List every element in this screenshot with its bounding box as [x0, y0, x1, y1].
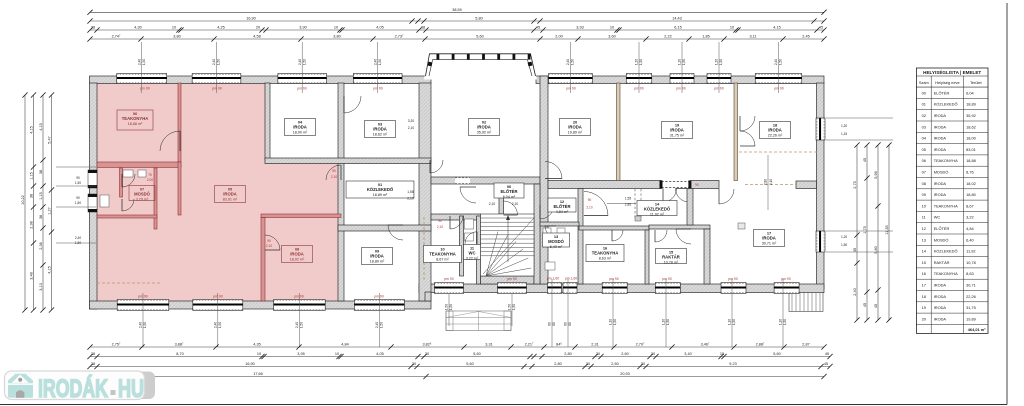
svg-text:TEAKONYHA: TEAKONYHA — [122, 116, 149, 121]
svg-text:2,88⁷: 2,88⁷ — [756, 343, 765, 347]
svg-text:pm 90: pm 90 — [728, 277, 738, 281]
svg-text:ELŐTÉR: ELŐTÉR — [934, 90, 950, 95]
svg-text:22,26: 22,26 — [966, 294, 976, 299]
svg-text:90: 90 — [76, 196, 80, 200]
svg-text:35,92: 35,92 — [966, 113, 976, 118]
svg-text:3,82⁶: 3,82⁶ — [423, 343, 432, 347]
svg-text:30,71 m²: 30,71 m² — [762, 241, 777, 245]
svg-text:3,79 m²: 3,79 m² — [136, 197, 149, 201]
svg-text:IRODA: IRODA — [934, 316, 947, 321]
svg-text:1,55: 1,55 — [625, 197, 632, 201]
svg-text:WC: WC — [469, 251, 476, 256]
svg-text:1,15: 1,15 — [841, 132, 847, 136]
svg-text:8,63: 8,63 — [966, 271, 974, 276]
svg-text:31,75 m²: 31,75 m² — [670, 133, 685, 137]
svg-text:2,21⁷: 2,21⁷ — [525, 343, 534, 347]
svg-text:20: 20 — [256, 26, 260, 30]
svg-text:TEAKONYHA: TEAKONYHA — [934, 158, 958, 163]
svg-text:2,40: 2,40 — [139, 322, 143, 328]
svg-text:1,20: 1,20 — [715, 59, 719, 65]
svg-text:90: 90 — [76, 176, 80, 180]
svg-text:KÖZLEKEDŐ: KÖZLEKEDŐ — [934, 249, 958, 254]
svg-text:38: 38 — [91, 362, 95, 366]
svg-text:13: 13 — [922, 237, 926, 242]
svg-text:12: 12 — [922, 226, 926, 231]
svg-text:15: 15 — [922, 260, 926, 265]
svg-text:30: 30 — [596, 352, 600, 356]
svg-text:pm 90: pm 90 — [444, 277, 454, 281]
svg-text:TEAKONYHA: TEAKONYHA — [934, 203, 958, 208]
svg-text:30: 30 — [586, 362, 590, 366]
svg-text:1,20: 1,20 — [841, 124, 847, 128]
svg-text:WC: WC — [934, 215, 941, 220]
svg-text:IRODA: IRODA — [762, 236, 776, 241]
svg-text:pm 90: pm 90 — [676, 87, 686, 91]
svg-text:2,10: 2,10 — [266, 244, 272, 248]
svg-text:2,10: 2,10 — [437, 225, 443, 229]
svg-text:3,80: 3,80 — [333, 35, 340, 39]
svg-text:2,80: 2,80 — [554, 362, 561, 366]
svg-text:1,50: 1,50 — [302, 59, 306, 65]
svg-text:2,45: 2,45 — [802, 35, 809, 39]
svg-text:pm 90: pm 90 — [373, 87, 383, 91]
svg-text:1,50: 1,50 — [719, 59, 723, 65]
svg-text:4,05: 4,05 — [376, 352, 383, 356]
svg-text:30: 30 — [425, 352, 429, 356]
svg-text:1,50: 1,50 — [571, 59, 575, 65]
svg-text:4,15: 4,15 — [773, 26, 780, 30]
svg-text:2,40: 2,40 — [375, 322, 379, 328]
svg-text:1,50: 1,50 — [143, 322, 147, 328]
svg-text:16,90: 16,90 — [245, 362, 255, 366]
svg-text:35,92 m²: 35,92 m² — [477, 130, 492, 134]
svg-text:2,10: 2,10 — [489, 202, 496, 206]
svg-text:38: 38 — [421, 26, 425, 30]
svg-text:11,92: 11,92 — [966, 249, 975, 254]
svg-text:2,40: 2,40 — [853, 288, 857, 295]
svg-text:5,80: 5,80 — [874, 246, 878, 253]
svg-text:1,50: 1,50 — [378, 59, 382, 65]
svg-text:1,15: 1,15 — [39, 192, 43, 199]
svg-text:TEAKONYHA: TEAKONYHA — [592, 251, 619, 256]
svg-text:3,40: 3,40 — [684, 352, 691, 356]
svg-text:90: 90 — [588, 198, 592, 202]
svg-text:2,40: 2,40 — [298, 59, 302, 65]
svg-text:Helyiség neve: Helyiség neve — [935, 80, 959, 85]
svg-text:2,80: 2,80 — [764, 179, 768, 185]
svg-text:1,50: 1,50 — [732, 319, 736, 325]
svg-text:3,88⁷: 3,88⁷ — [175, 343, 184, 347]
svg-text:2,60: 2,60 — [621, 352, 628, 356]
svg-text:2,40: 2,40 — [213, 322, 217, 328]
svg-text:18,02 m²: 18,02 m² — [290, 257, 305, 261]
svg-text:5,60: 5,60 — [773, 352, 780, 356]
svg-text:30: 30 — [641, 362, 645, 366]
svg-text:45: 45 — [863, 303, 867, 307]
svg-text:10,78 m²: 10,78 m² — [664, 260, 679, 264]
svg-text:45: 45 — [819, 26, 823, 30]
svg-text:IRODA: IRODA — [670, 128, 684, 133]
svg-text:5,60: 5,60 — [466, 362, 473, 366]
svg-text:02: 02 — [922, 113, 926, 118]
svg-text:3,22: 3,22 — [966, 215, 974, 220]
svg-text:01: 01 — [922, 102, 926, 107]
svg-text:2,10: 2,10 — [586, 206, 592, 210]
svg-text:MOSDÓ: MOSDÓ — [548, 239, 565, 244]
svg-text:Szám: Szám — [919, 80, 929, 85]
svg-text:5,80: 5,80 — [475, 17, 482, 21]
svg-text:3,93: 3,93 — [576, 26, 583, 30]
svg-text:HELYISÉGLISTA | EMELET: HELYISÉGLISTA | EMELET — [923, 68, 981, 75]
svg-text:ELŐTÉR: ELŐTÉR — [554, 204, 571, 209]
svg-text:10: 10 — [610, 26, 614, 30]
svg-text:90: 90 — [332, 169, 336, 173]
svg-text:10,22: 10,22 — [21, 195, 25, 205]
svg-text:2,40: 2,40 — [75, 236, 81, 240]
svg-text:18,00 m²: 18,00 m² — [293, 130, 308, 134]
svg-text:8,76: 8,76 — [966, 169, 974, 174]
svg-text:18,00: 18,00 — [966, 136, 977, 141]
svg-text:8,67 m²: 8,67 m² — [436, 257, 449, 261]
svg-text:1,50: 1,50 — [783, 319, 787, 325]
svg-text:18,80: 18,80 — [966, 192, 977, 197]
svg-text:3,60: 3,60 — [608, 35, 615, 39]
svg-text:60: 60 — [548, 322, 552, 326]
svg-text:3,46⁷: 3,46⁷ — [701, 343, 710, 347]
svg-text:03: 03 — [922, 124, 926, 129]
svg-text:8,67: 8,67 — [966, 203, 974, 208]
svg-text:2,10: 2,10 — [769, 179, 773, 185]
svg-text:1,50: 1,50 — [841, 243, 847, 247]
svg-text:5,47: 5,47 — [47, 136, 51, 143]
svg-text:6,40 m²: 6,40 m² — [550, 245, 563, 249]
svg-text:HU: HU — [118, 375, 144, 403]
svg-text:KÖZLEKEDŐ: KÖZLEKEDŐ — [644, 207, 671, 212]
svg-text:4,30: 4,30 — [134, 26, 141, 30]
svg-text:19: 19 — [922, 305, 926, 310]
svg-text:pm 90: pm 90 — [781, 277, 791, 281]
svg-text:1,50: 1,50 — [666, 319, 670, 325]
svg-text:3,22 m²: 3,22 m² — [466, 256, 479, 260]
svg-text:45: 45 — [824, 362, 828, 366]
svg-text:18,89 m²: 18,89 m² — [373, 193, 388, 197]
svg-text:60: 60 — [552, 322, 556, 326]
svg-text:22,26 m²: 22,26 m² — [768, 133, 783, 137]
svg-text:1,20: 1,20 — [635, 59, 639, 65]
svg-text:10: 10 — [334, 26, 338, 30]
svg-text:19,89: 19,89 — [966, 316, 976, 321]
svg-text:pm 1,60: pm 1,60 — [547, 277, 559, 281]
svg-text:2,40: 2,40 — [295, 322, 299, 328]
svg-text:IRODA: IRODA — [934, 113, 947, 118]
svg-text:2,75: 2,75 — [853, 181, 857, 188]
svg-text:45: 45 — [536, 26, 540, 30]
svg-text:3,90: 3,90 — [299, 26, 306, 30]
svg-text:2,10: 2,10 — [512, 202, 519, 206]
svg-text:20,93: 20,93 — [620, 372, 630, 376]
svg-text:1,10: 1,10 — [609, 319, 613, 325]
svg-text:18,88 m²: 18,88 m² — [128, 122, 143, 126]
svg-text:2,22: 2,22 — [664, 35, 671, 39]
svg-text:2,40: 2,40 — [137, 59, 141, 65]
svg-text:2,87: 2,87 — [802, 343, 809, 347]
svg-text:IRODA: IRODA — [768, 128, 782, 133]
svg-text:8,70: 8,70 — [176, 352, 183, 356]
svg-text:1,20: 1,20 — [841, 235, 847, 239]
svg-text:1,50: 1,50 — [75, 241, 81, 245]
svg-text:2,70⁷: 2,70⁷ — [636, 343, 645, 347]
svg-text:10: 10 — [335, 352, 339, 356]
svg-text:10: 10 — [172, 26, 176, 30]
svg-text:18,89: 18,89 — [966, 102, 976, 107]
svg-text:RAKTÁR: RAKTÁR — [934, 260, 950, 265]
svg-text:TEAKONYHA: TEAKONYHA — [934, 271, 958, 276]
svg-text:1,75: 1,75 — [863, 226, 867, 233]
svg-text:17: 17 — [922, 282, 926, 287]
svg-text:4,25: 4,25 — [217, 26, 224, 30]
svg-text:38: 38 — [39, 215, 43, 219]
svg-text:15: 15 — [720, 352, 724, 356]
svg-text:IRODA: IRODA — [934, 147, 947, 152]
svg-text:11: 11 — [922, 215, 926, 220]
svg-text:3,11: 3,11 — [749, 35, 756, 39]
svg-text:MOSDÓ: MOSDÓ — [134, 192, 151, 197]
svg-text:30,71: 30,71 — [966, 282, 976, 287]
svg-text:pm 1,60: pm 1,60 — [565, 277, 577, 281]
svg-text:6,04 m²: 6,04 m² — [503, 195, 516, 199]
svg-text:4,15: 4,15 — [29, 126, 33, 133]
svg-text:2,10: 2,10 — [408, 126, 415, 130]
svg-text:3,13: 3,13 — [39, 283, 43, 290]
svg-text:6,40: 6,40 — [966, 237, 974, 242]
svg-text:2,10: 2,10 — [407, 197, 414, 201]
svg-text:38,59: 38,59 — [452, 8, 462, 12]
svg-text:1,50: 1,50 — [682, 59, 686, 65]
svg-text:KÖZLEKEDŐ: KÖZLEKEDŐ — [367, 187, 394, 192]
svg-text:1,50: 1,50 — [380, 322, 384, 328]
svg-text:2,74⁷: 2,74⁷ — [112, 35, 121, 39]
svg-text:3,48: 3,48 — [29, 272, 33, 279]
svg-text:IRODA: IRODA — [934, 282, 947, 287]
svg-text:3,31: 3,31 — [485, 343, 492, 347]
svg-text:4,15: 4,15 — [39, 123, 43, 130]
svg-text:18,80 m²: 18,80 m² — [370, 259, 385, 263]
svg-text:2,40: 2,40 — [373, 59, 377, 65]
svg-text:KÖZLEKEDŐ: KÖZLEKEDŐ — [934, 102, 958, 107]
svg-text:4,84 m²: 4,84 m² — [556, 210, 569, 214]
svg-text:17,66: 17,66 — [253, 372, 263, 376]
svg-text:pm 90: pm 90 — [374, 295, 384, 299]
svg-text:10: 10 — [257, 352, 261, 356]
svg-text:16,90: 16,90 — [246, 17, 256, 21]
svg-text:90: 90 — [267, 239, 271, 243]
svg-text:5,60: 5,60 — [476, 35, 483, 39]
svg-text:2,40: 2,40 — [566, 59, 570, 65]
svg-text:ELŐTÉR: ELŐTÉR — [934, 226, 950, 231]
svg-text:3,95: 3,95 — [297, 352, 304, 356]
svg-text:35: 35 — [853, 248, 857, 252]
svg-text:1,50: 1,50 — [445, 304, 449, 310]
svg-text:1,85: 1,85 — [702, 35, 709, 39]
svg-text:4,35: 4,35 — [253, 343, 260, 347]
svg-text:2,00: 2,00 — [555, 35, 562, 39]
svg-text:4,84: 4,84 — [966, 226, 974, 231]
svg-text:83,01: 83,01 — [966, 147, 976, 152]
svg-text:1,50: 1,50 — [512, 304, 516, 310]
svg-text:1,50: 1,50 — [75, 181, 81, 185]
svg-text:06: 06 — [922, 158, 926, 163]
svg-text:5,60: 5,60 — [473, 352, 480, 356]
svg-text:45: 45 — [825, 352, 829, 356]
svg-text:1,27: 1,27 — [47, 207, 51, 214]
svg-text:IRODA: IRODA — [934, 294, 947, 299]
svg-text:RAKTÁR: RAKTÁR — [662, 255, 680, 260]
svg-text:6,04: 6,04 — [966, 90, 974, 95]
svg-text:IRODA: IRODA — [223, 192, 237, 197]
svg-text:31,75: 31,75 — [966, 305, 976, 310]
svg-text:3,80: 3,80 — [173, 35, 180, 39]
svg-text:2,80: 2,80 — [564, 352, 571, 356]
svg-text:pm 90: pm 90 — [566, 87, 576, 91]
svg-text:30: 30 — [412, 362, 416, 366]
svg-text:pm 90: pm 90 — [774, 87, 784, 91]
svg-text:45: 45 — [874, 304, 878, 308]
svg-text:2,00: 2,00 — [147, 178, 153, 182]
svg-text:10,78: 10,78 — [966, 260, 976, 265]
svg-text:2,75⁷: 2,75⁷ — [112, 343, 121, 347]
svg-text:83,01 m²: 83,01 m² — [223, 197, 238, 201]
svg-text:1,50: 1,50 — [449, 304, 453, 310]
svg-text:11,35: 11,35 — [885, 225, 889, 234]
svg-text:1,50: 1,50 — [300, 322, 304, 328]
svg-text:IRODA: IRODA — [477, 125, 491, 130]
svg-text:4,05: 4,05 — [376, 26, 383, 30]
svg-text:30: 30 — [651, 352, 655, 356]
svg-text:IRODA: IRODA — [934, 181, 947, 186]
svg-text:pm 90: pm 90 — [212, 87, 222, 91]
svg-text:pm 90: pm 90 — [662, 277, 672, 281]
svg-text:11,92 m²: 11,92 m² — [650, 212, 665, 216]
svg-text:05: 05 — [922, 147, 926, 152]
svg-text:pm 90: pm 90 — [294, 295, 304, 299]
svg-text:1,15: 1,15 — [29, 172, 33, 179]
svg-text:IRODÁK: IRODÁK — [38, 374, 108, 403]
svg-text:2,40: 2,40 — [774, 59, 778, 65]
svg-text:pm 90: pm 90 — [213, 295, 223, 299]
svg-text:60: 60 — [564, 322, 568, 326]
svg-text:TEAKONYHA: TEAKONYHA — [429, 252, 456, 257]
svg-text:IRODA: IRODA — [934, 124, 947, 129]
svg-text:38: 38 — [91, 352, 95, 356]
svg-text:1,50: 1,50 — [217, 59, 221, 65]
svg-text:09: 09 — [922, 192, 926, 197]
svg-text:pm 90: pm 90 — [609, 277, 619, 281]
svg-text:1,55: 1,55 — [407, 190, 414, 194]
svg-text:1,20: 1,20 — [678, 59, 682, 65]
svg-text:19,89 m²: 19,89 m² — [568, 130, 583, 134]
svg-text:MOSDÓ: MOSDÓ — [934, 237, 949, 242]
svg-text:75: 75 — [148, 173, 152, 177]
svg-text:2,36: 2,36 — [39, 242, 43, 249]
svg-text:464,01 m²: 464,01 m² — [968, 327, 986, 332]
svg-text:1,10: 1,10 — [728, 319, 732, 325]
svg-text:2,60: 2,60 — [611, 362, 618, 366]
svg-text:90: 90 — [695, 183, 699, 187]
svg-text:45: 45 — [863, 158, 867, 162]
svg-text:1,50: 1,50 — [142, 59, 146, 65]
svg-text:3,20: 3,20 — [408, 119, 415, 123]
svg-text:1,50: 1,50 — [639, 59, 643, 65]
svg-text:60: 60 — [568, 322, 572, 326]
svg-text:IRODA: IRODA — [290, 252, 304, 257]
svg-text:1,10: 1,10 — [662, 319, 666, 325]
svg-text:18,88: 18,88 — [966, 158, 976, 163]
svg-text:4,58: 4,58 — [253, 35, 260, 39]
svg-text:18: 18 — [922, 294, 926, 299]
svg-text:IRODA: IRODA — [370, 254, 384, 259]
svg-text:1,50: 1,50 — [613, 319, 617, 325]
svg-text:38: 38 — [91, 26, 95, 30]
svg-text:Terület: Terület — [970, 80, 983, 85]
svg-text:9,23: 9,23 — [729, 362, 736, 366]
svg-text:1,10: 1,10 — [779, 319, 783, 325]
svg-text:IRODA: IRODA — [934, 136, 947, 141]
svg-text:18,02: 18,02 — [966, 181, 976, 186]
svg-text:38: 38 — [29, 194, 33, 198]
svg-text:4,84: 4,84 — [341, 343, 348, 347]
svg-text:IRODA: IRODA — [934, 305, 947, 310]
svg-text:10: 10 — [730, 26, 734, 30]
svg-text:18,62 m²: 18,62 m² — [373, 132, 388, 136]
svg-text:16: 16 — [922, 271, 926, 276]
svg-text:38: 38 — [39, 170, 43, 174]
svg-text:14,43: 14,43 — [672, 17, 682, 21]
svg-text:90: 90 — [438, 219, 442, 223]
svg-text:07: 07 — [922, 169, 926, 174]
svg-text:18,62: 18,62 — [966, 124, 976, 129]
svg-text:6,15: 6,15 — [674, 26, 681, 30]
svg-text:2,85: 2,85 — [625, 203, 632, 207]
svg-text:IRODA: IRODA — [934, 192, 947, 197]
svg-text:IRODA: IRODA — [568, 125, 582, 130]
svg-text:MOSDÓ: MOSDÓ — [934, 169, 949, 174]
svg-text:1,50: 1,50 — [218, 322, 222, 328]
svg-text:8,63 m²: 8,63 m² — [599, 256, 612, 260]
svg-text:4,15: 4,15 — [47, 266, 51, 273]
svg-text:2,31: 2,31 — [591, 343, 598, 347]
svg-text:08: 08 — [922, 181, 926, 186]
svg-text:pm 90: pm 90 — [507, 277, 517, 281]
svg-text:1,50: 1,50 — [779, 59, 783, 65]
svg-text:84⁶: 84⁶ — [556, 343, 562, 347]
svg-text:1,50: 1,50 — [75, 201, 81, 205]
svg-text:1,50: 1,50 — [508, 304, 512, 310]
svg-text:IRODA: IRODA — [293, 125, 307, 130]
svg-text:2,73⁷: 2,73⁷ — [395, 35, 404, 39]
svg-text:IRODA: IRODA — [373, 127, 387, 132]
svg-text:2,38: 2,38 — [29, 221, 33, 228]
svg-text:ELŐTÉR: ELŐTÉR — [501, 189, 518, 194]
svg-text:5,96: 5,96 — [874, 171, 878, 178]
svg-text:2,10: 2,10 — [331, 175, 337, 179]
svg-text:2,40: 2,40 — [212, 59, 216, 65]
